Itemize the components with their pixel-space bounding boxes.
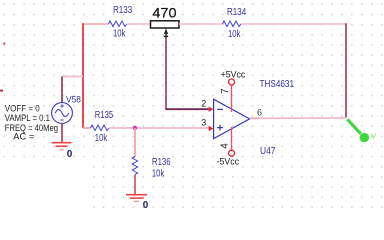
wire top from node A to R133	[83, 23, 109, 25]
pin 3 arrowhead	[209, 126, 214, 131]
source plus mark	[60, 105, 63, 107]
svg-text:10k: 10k	[228, 28, 241, 39]
svg-text:AC =: AC =	[13, 132, 34, 142]
op-amp minus input mark	[217, 108, 223, 110]
wire potentiometer to R134	[179, 23, 223, 25]
resistor R134	[223, 21, 241, 27]
wire R133 to potentiometer	[127, 23, 150, 25]
resistor R136	[132, 157, 137, 175]
ground 0 under R136	[126, 194, 147, 196]
svg-text:-5Vcc: -5Vcc	[217, 157, 240, 167]
pin 2 arrowhead	[209, 107, 214, 112]
wire junction down to R136	[134, 128, 136, 157]
probe stick	[347, 119, 361, 134]
stray red dash left edge	[0, 90, 3, 92]
source sine wave	[55, 110, 69, 117]
svg-text:2: 2	[201, 98, 206, 108]
svg-text:0: 0	[67, 149, 73, 160]
svg-text:7: 7	[220, 88, 231, 94]
svg-text:THS4631: THS4631	[260, 78, 295, 89]
resistor R135	[91, 125, 109, 131]
potentiometer body	[151, 21, 180, 28]
svg-text:R135: R135	[95, 109, 113, 120]
source minus mark	[60, 119, 63, 121]
source V58 circle	[52, 103, 73, 124]
wire R135 to junction and op-amp pin 3	[109, 127, 209, 129]
potentiometer wiper arrow	[164, 29, 168, 34]
wire potentiometer wiper down	[165, 38, 167, 109]
op-amp U47 triangle	[214, 99, 250, 138]
svg-text:10k: 10k	[95, 132, 108, 143]
wire R136 to ground	[134, 175, 136, 195]
svg-text:470: 470	[152, 5, 176, 20]
wire source top	[61, 77, 63, 104]
svg-text:3: 3	[201, 118, 206, 128]
svg-text:V: V	[371, 134, 376, 141]
wire source bottom	[61, 123, 63, 143]
svg-text:R136: R136	[152, 156, 171, 167]
svg-text:10k: 10k	[113, 27, 126, 38]
wire wiper to op-amp pin 2	[165, 108, 208, 110]
ground 0 under V58	[52, 142, 72, 144]
junction node	[133, 126, 137, 130]
wire R134 to right corner	[241, 23, 346, 25]
svg-text:4: 4	[219, 143, 230, 149]
svg-text:+5Vcc: +5Vcc	[221, 70, 246, 80]
svg-text:R134: R134	[227, 6, 246, 17]
op-amp plus input mark	[217, 127, 223, 129]
probe head	[360, 133, 369, 142]
wire op-amp output	[250, 117, 259, 119]
wire stub source to vertical	[62, 76, 83, 78]
wire right vertical down to output	[345, 23, 347, 118]
svg-text:U47: U47	[260, 145, 275, 156]
stray red dot left edge	[3, 42, 5, 44]
svg-text:6: 6	[257, 107, 262, 117]
resistor R133	[109, 21, 127, 27]
svg-text:10k: 10k	[152, 167, 165, 178]
svg-text:V58: V58	[66, 94, 81, 105]
svg-text:R133: R133	[113, 4, 132, 15]
power pin 4 -5Vcc	[231, 127, 233, 150]
svg-text:0: 0	[143, 200, 149, 211]
wire left to R135	[83, 127, 91, 129]
wire left vertical node A down to R135	[82, 23, 84, 128]
